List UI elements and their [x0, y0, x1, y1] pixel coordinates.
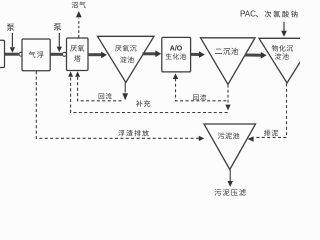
anaerobic settler underflow arrow	[124, 83, 126, 93]
pump P2 label 泵	[54, 23, 62, 30]
junction circle before flotation	[19, 52, 23, 56]
biogas vent dashed line	[78, 19, 80, 38]
sludge tank outlet arrow	[229, 170, 231, 182]
secondary settler underflow dashed arrow	[227, 85, 229, 105]
svg-text:PAC: PAC	[240, 10, 256, 19]
label 排泥	[264, 130, 278, 136]
A/O biochemical box	[162, 37, 191, 72]
label 浮渣排放	[118, 130, 149, 136]
label 物化沉淀池 line1	[272, 45, 293, 51]
wire: flotation to anaerobic tower	[50, 53, 62, 56]
wire: tower to anaerobic settler	[88, 53, 103, 56]
label 厌氧塔 line2	[74, 55, 81, 61]
label 污泥池	[218, 132, 240, 139]
label 回流 A	[99, 93, 112, 99]
reflux B dashed line into A/O bottom	[173, 73, 178, 79]
sludge tank triangle 污泥池	[204, 124, 256, 170]
label 补充	[136, 100, 150, 106]
pump P2 feed arrow	[58, 33, 60, 47]
dosing arrow	[283, 22, 285, 31]
label 回流 B	[193, 94, 206, 100]
anaerobic tower box 厌氧塔	[67, 38, 89, 71]
wire: secondary settler to chemical tank	[245, 54, 262, 57]
air flotation box 气浮	[22, 39, 50, 71]
label 厌氧沉淀池 line2	[120, 56, 134, 63]
label 厌氧沉淀池 line1	[115, 45, 136, 51]
label 污泥压滤	[215, 189, 246, 196]
label 气浮	[29, 51, 44, 58]
label 物化沉淀池 line2	[275, 53, 289, 60]
svg-text:A/O: A/O	[170, 46, 183, 53]
label 生化池	[166, 53, 186, 59]
pump P1 feed arrow	[11, 33, 13, 47]
physico-chemical sedimentation tank triangle 物化沉淀池	[259, 38, 315, 83]
wire: inlet to flotation	[5, 53, 19, 56]
junction circle before tower	[62, 52, 66, 56]
wire: A/O to secondary settler	[191, 53, 201, 56]
chemical tank underflow dashed line 排泥	[255, 84, 287, 138]
secondary sedimentation tank triangle 二沉池	[201, 38, 256, 85]
scum discharge dashed line 浮渣排放	[36, 71, 199, 138]
inlet tank box (cut at left edge)	[0, 40, 5, 67]
anaerobic sedimentation tank triangle 厌氧沉淀池	[98, 36, 155, 82]
wire: settler to A/O	[143, 52, 158, 55]
reflux A dashed line to tower	[78, 76, 122, 101]
label 厌氧塔 line1	[70, 45, 84, 51]
supplement dashed line C to tower	[71, 76, 228, 112]
pump P1 label 泵	[7, 24, 15, 31]
label 二沉池	[215, 48, 238, 55]
label 沼气	[72, 2, 86, 8]
